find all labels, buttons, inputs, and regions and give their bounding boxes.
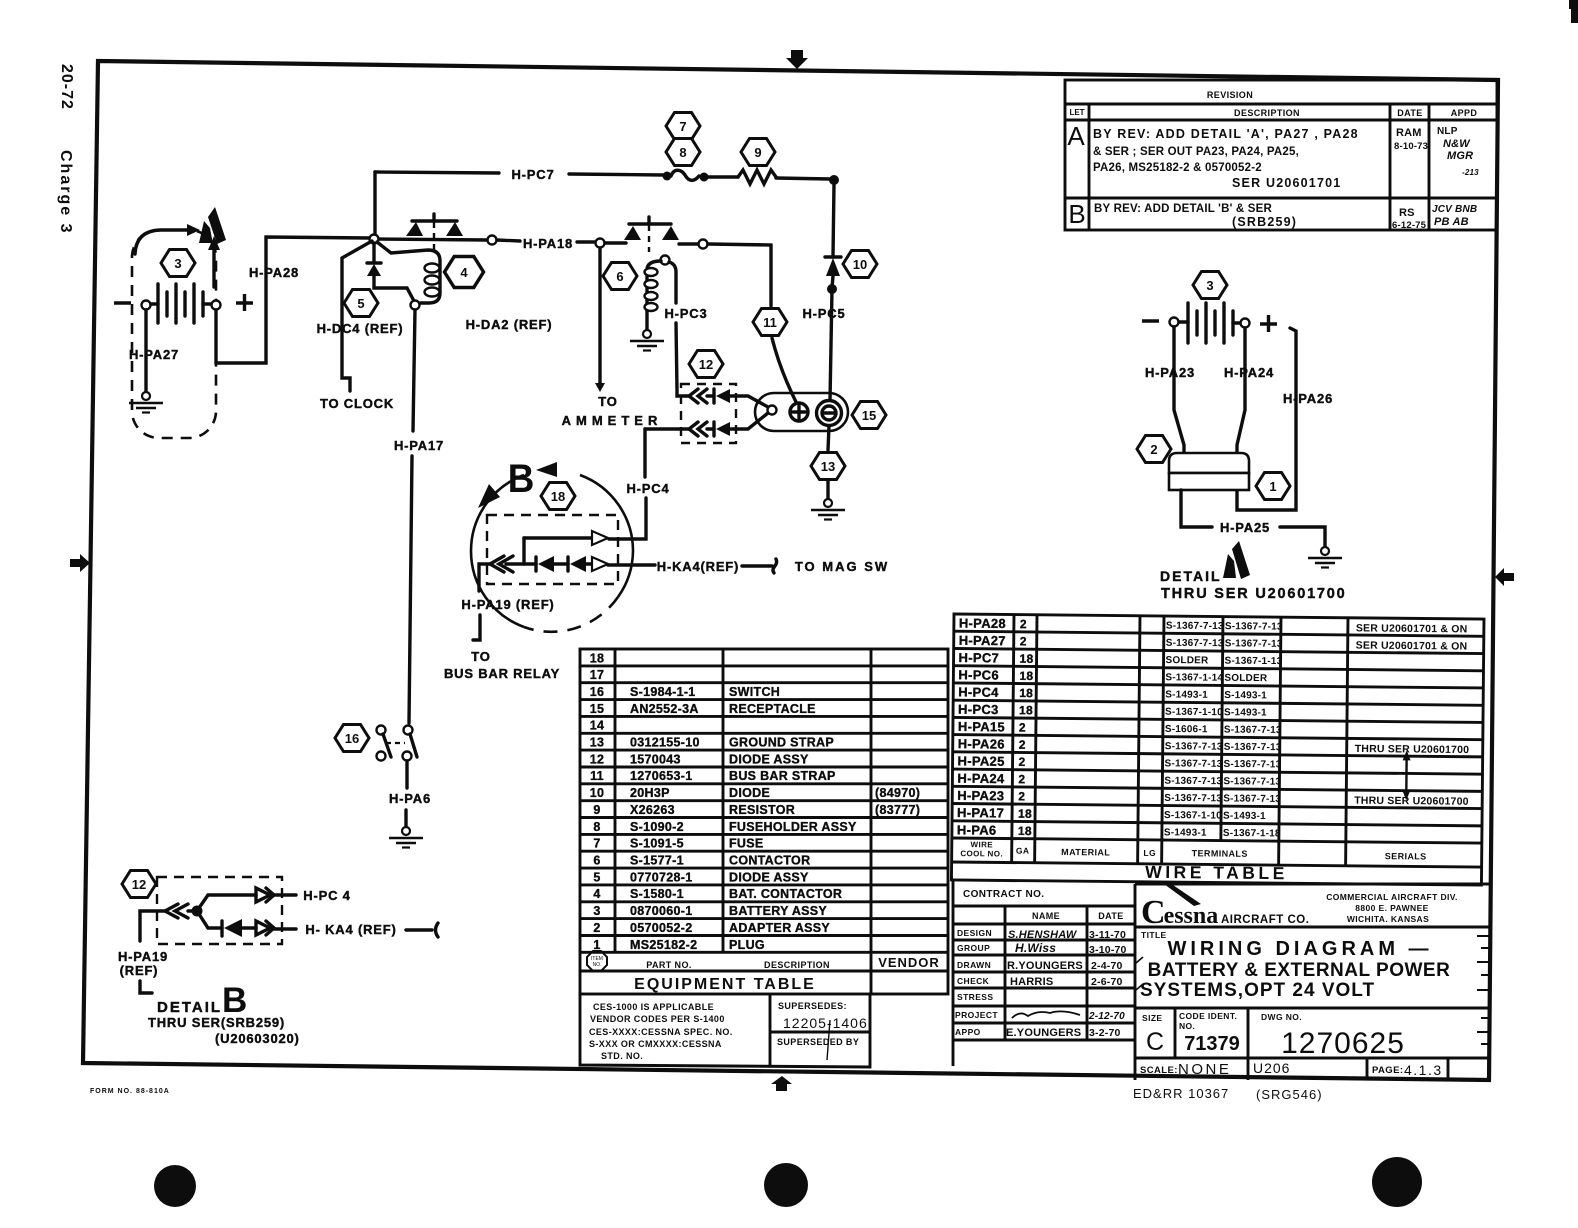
svg-text:SIZE: SIZE xyxy=(1142,1013,1163,1023)
svg-text:16: 16 xyxy=(345,731,359,746)
svg-text:S-1606-1: S-1606-1 xyxy=(1165,724,1208,735)
equipment table header row xyxy=(587,951,607,971)
svg-text:N&W: N&W xyxy=(1443,138,1471,150)
svg-text:S-1367-7-13: S-1367-7-13 xyxy=(1224,724,1282,736)
svg-text:-213: -213 xyxy=(1462,168,1479,177)
wire to mag switch xyxy=(742,564,772,567)
svg-text:VENDOR: VENDOR xyxy=(878,955,940,970)
diode detail 12 xyxy=(220,921,223,936)
svg-text:MATERIAL: MATERIAL xyxy=(1061,847,1110,857)
svg-text:S-1367-1-14: S-1367-1-14 xyxy=(1165,672,1223,684)
svg-text:9: 9 xyxy=(593,803,600,817)
detail B lower row wire xyxy=(506,562,536,565)
svg-text:SCALE:: SCALE: xyxy=(1140,1065,1178,1076)
svg-text:EQUIPMENT TABLE: EQUIPMENT TABLE xyxy=(634,976,816,993)
register arrow bottom xyxy=(771,1076,792,1091)
bat contactor 4 coil body xyxy=(377,242,440,303)
svg-text:6-12-75: 6-12-75 xyxy=(1392,220,1427,231)
svg-text:B: B xyxy=(1068,199,1085,229)
svg-text:LET: LET xyxy=(1069,108,1084,117)
svg-text:2: 2 xyxy=(1018,789,1025,803)
svg-text:HARRIS: HARRIS xyxy=(1010,976,1053,988)
node H-DA2 tap right xyxy=(596,239,605,248)
svg-text:2: 2 xyxy=(1018,772,1025,786)
diode item 5 xyxy=(367,261,381,264)
wire chevron to junction xyxy=(188,909,193,912)
svg-text:15: 15 xyxy=(590,702,605,716)
node B junction dot xyxy=(829,175,839,185)
wire H-PC4 ref out xyxy=(274,893,296,896)
svg-text:ED&RR 10367: ED&RR 10367 xyxy=(1133,1086,1229,1101)
switch 16 lower contact nodes xyxy=(377,752,386,761)
wire table tilt group xyxy=(951,614,1484,885)
svg-text:SYSTEMS,OPT 24 VOLT: SYSTEMS,OPT 24 VOLT xyxy=(1140,980,1375,1001)
diode assy 12 lower row wire from H-PC4 xyxy=(645,427,690,430)
svg-text:RECEPTACLE: RECEPTACLE xyxy=(729,702,816,716)
svg-text:H-PC 4: H-PC 4 xyxy=(303,888,350,903)
svg-text:0570052-2: 0570052-2 xyxy=(630,921,692,935)
svg-text:3-10-70: 3-10-70 xyxy=(1089,944,1127,956)
svg-text:DETAIL: DETAIL xyxy=(1160,568,1222,584)
svg-text:4.1.3: 4.1.3 xyxy=(1404,1062,1443,1078)
svg-text:20H3P: 20H3P xyxy=(630,786,670,800)
hexagon item 8 xyxy=(666,139,700,166)
open diode lower xyxy=(592,557,608,571)
svg-text:11: 11 xyxy=(763,315,777,330)
hexagon item 1 xyxy=(1256,473,1290,500)
svg-text:8-10-73: 8-10-73 xyxy=(1394,141,1428,152)
svg-text:71379: 71379 xyxy=(1184,1033,1240,1055)
wire H-PC4 vertical upper xyxy=(643,429,646,477)
serials range arrow xyxy=(1405,757,1408,793)
svg-text:H-PA23: H-PA23 xyxy=(1145,365,1195,380)
bat contactor 4 fixed contact left xyxy=(406,222,423,236)
svg-text:DIODE: DIODE xyxy=(729,786,770,800)
svg-text:WIRING DIAGRAM —: WIRING DIAGRAM — xyxy=(1167,938,1432,960)
svg-text:PA26, MS25182-2 & 0570052-2: PA26, MS25182-2 & 0570052-2 xyxy=(1093,162,1262,174)
svg-text:8: 8 xyxy=(679,145,686,160)
svg-text:2: 2 xyxy=(1020,617,1027,631)
ground battery xyxy=(129,392,163,413)
svg-text:H-PA6: H-PA6 xyxy=(389,791,431,806)
wire H-KA4 out of box xyxy=(608,563,655,566)
sheet border frame xyxy=(83,61,1498,1080)
svg-text:BAT. CONTACTOR: BAT. CONTACTOR xyxy=(729,887,842,901)
svg-text:S-1367-1-13: S-1367-1-13 xyxy=(1225,656,1283,668)
svg-text:FORM NO. 88-810A: FORM NO. 88-810A xyxy=(90,1088,170,1095)
svg-text:S-1367-7-13: S-1367-7-13 xyxy=(1165,758,1223,770)
detail 12 left chevrons xyxy=(165,904,188,918)
wire to clock branch xyxy=(342,241,372,391)
svg-text:12: 12 xyxy=(590,752,605,766)
svg-text:1570043: 1570043 xyxy=(630,752,681,766)
svg-text:STRESS: STRESS xyxy=(957,992,993,1002)
wire node A up to H-PC7 xyxy=(373,172,376,234)
wire H-PA17 upper xyxy=(413,310,415,431)
detail A glyph xyxy=(1223,554,1236,578)
svg-text:BATTERY ASSY: BATTERY ASSY xyxy=(729,904,827,918)
diode item 5 branch wire xyxy=(372,243,375,262)
hexagon item 3 xyxy=(161,250,195,277)
svg-text:THRU SER U20601700: THRU SER U20601700 xyxy=(1354,795,1469,808)
svg-text:0770728-1: 0770728-1 xyxy=(630,870,692,884)
svg-text:1270653-1: 1270653-1 xyxy=(630,769,692,783)
svg-text:DWG NO.: DWG NO. xyxy=(1261,1012,1302,1022)
svg-text:Charge 3: Charge 3 xyxy=(57,150,74,234)
svg-text:TO MAG SW: TO MAG SW xyxy=(795,559,889,574)
svg-text:CODE IDENT.: CODE IDENT. xyxy=(1179,1011,1237,1021)
svg-text:S-1984-1-1: S-1984-1-1 xyxy=(630,685,696,699)
contactor 6 coil top node xyxy=(661,256,670,265)
ground contactor 6 xyxy=(630,330,664,351)
svg-text:NAME: NAME xyxy=(1032,911,1060,921)
svg-text:11: 11 xyxy=(590,769,604,783)
svg-text:CHECK: CHECK xyxy=(957,976,990,986)
svg-text:18: 18 xyxy=(1018,807,1032,821)
wire lower row to receptacle pin xyxy=(730,413,768,429)
wire H-PA19 detail stub xyxy=(140,981,152,993)
battery detail A plates xyxy=(1179,303,1241,343)
svg-text:BATTERY & EXTERNAL POWER: BATTERY & EXTERNAL POWER xyxy=(1148,960,1451,981)
switch 16 arms xyxy=(383,734,391,757)
scan tick marks right edge of title block xyxy=(1136,936,1489,1044)
svg-text:DATE: DATE xyxy=(1397,108,1422,118)
hexagon item 5 xyxy=(344,290,378,317)
svg-text:H-PA28: H-PA28 xyxy=(249,265,299,280)
svg-text:3: 3 xyxy=(1206,278,1213,293)
detail 12 junction dot xyxy=(192,906,203,917)
svg-text:2-4-70: 2-4-70 xyxy=(1091,960,1123,972)
detail A flag arrow up xyxy=(212,249,215,287)
svg-text:H-PC6: H-PC6 xyxy=(958,667,999,682)
diode lower xyxy=(712,422,715,436)
plus sign detail A xyxy=(1260,315,1277,332)
svg-text:BY REV: ADD DETAIL 'A', PA27 ,: BY REV: ADD DETAIL 'A', PA27 , PA28 xyxy=(1093,127,1359,141)
register arrow right xyxy=(1495,568,1514,586)
switch 16 link dashed xyxy=(386,742,405,744)
svg-text:AN2552-3A: AN2552-3A xyxy=(630,702,699,716)
svg-text:3: 3 xyxy=(593,904,600,918)
svg-text:S-1367-7-13: S-1367-7-13 xyxy=(1223,793,1281,805)
detail 12 upper branch wire xyxy=(199,895,256,908)
wire H-PC5 node C to receptacle minus xyxy=(830,289,832,401)
svg-text:SERIALS: SERIALS xyxy=(1385,851,1427,861)
hexagon item 3 detail A xyxy=(1193,272,1227,299)
svg-text:TO CLOCK: TO CLOCK xyxy=(320,396,394,411)
svg-text:S-1367-7-13: S-1367-7-13 xyxy=(1223,776,1281,788)
svg-text:TERMINALS: TERMINALS xyxy=(1192,848,1248,859)
svg-text:E.YOUNGERS: E.YOUNGERS xyxy=(1006,1027,1081,1039)
svg-text:S-1493-1: S-1493-1 xyxy=(1223,811,1266,822)
svg-text:H- KA4 (REF): H- KA4 (REF) xyxy=(305,922,396,937)
ground detail A xyxy=(1308,547,1342,568)
svg-text:RESISTOR: RESISTOR xyxy=(729,803,795,817)
wire H-PA18 node A to contactor 4 contacts xyxy=(379,239,487,240)
wire resistor to node B xyxy=(776,178,830,179)
wire H-PA19 ref left leg xyxy=(140,911,166,941)
punch dot center xyxy=(764,1163,808,1207)
wire node to contactor 6 contacts xyxy=(605,241,626,244)
svg-text:2: 2 xyxy=(1019,721,1026,735)
svg-text:17: 17 xyxy=(590,668,605,682)
wire H-PA26 xyxy=(1237,328,1296,510)
register arrow top xyxy=(786,50,808,69)
corner crop mark top-right xyxy=(1569,0,1578,23)
wire contacts to node D xyxy=(679,242,698,245)
switch 16 upper contact nodes xyxy=(377,726,386,735)
svg-text:5: 5 xyxy=(357,296,364,311)
svg-text:H-PA27: H-PA27 xyxy=(959,633,1006,648)
svg-text:5: 5 xyxy=(593,870,600,884)
svg-text:10: 10 xyxy=(853,257,867,272)
detail B ref arrowhead top xyxy=(536,462,557,477)
wire diode 10 to node C xyxy=(832,276,833,288)
ground switch xyxy=(389,827,423,848)
svg-text:GROUP: GROUP xyxy=(957,943,990,953)
detail A flag arrow curved xyxy=(135,230,188,254)
svg-text:S-1367-7-13: S-1367-7-13 xyxy=(1225,638,1283,650)
svg-text:15: 15 xyxy=(862,408,876,423)
svg-text:2-6-70: 2-6-70 xyxy=(1091,976,1123,988)
svg-text:S-1090-2: S-1090-2 xyxy=(630,820,684,834)
svg-text:6: 6 xyxy=(616,269,623,284)
svg-text:S-1367-7-13: S-1367-7-13 xyxy=(1224,742,1282,754)
detail 12 dashed box xyxy=(157,877,282,944)
contactor 6 fixed contact right xyxy=(662,226,679,240)
battery terminal node left xyxy=(142,301,151,310)
svg-text:H-PA6: H-PA6 xyxy=(957,822,997,837)
svg-text:H-PA18: H-PA18 xyxy=(523,236,573,251)
svg-text:THRU SER(SRB259): THRU SER(SRB259) xyxy=(148,1015,285,1030)
hexagon item 12 xyxy=(689,351,723,378)
svg-text:16: 16 xyxy=(590,685,605,699)
svg-text:NLP: NLP xyxy=(1437,126,1458,137)
wire H-DA2 down to ammeter xyxy=(598,248,601,383)
svg-text:(SRG546): (SRG546) xyxy=(1256,1087,1323,1102)
svg-text:PAGE:: PAGE: xyxy=(1372,1065,1403,1076)
svg-text:SUPERSEDED BY: SUPERSEDED BY xyxy=(777,1037,859,1047)
hexagon item 9 xyxy=(741,139,775,166)
svg-text:H.Wiss: H.Wiss xyxy=(1015,941,1056,955)
bat contactor 4 coil loops xyxy=(425,264,440,297)
connector chevrons upper xyxy=(689,389,707,403)
receptacle plus terminal xyxy=(790,403,808,421)
bus bar strap 11 wire to receptacle plus xyxy=(772,338,797,404)
svg-text:THRU SER U20601700: THRU SER U20601700 xyxy=(1161,586,1347,602)
svg-text:(REF): (REF) xyxy=(120,963,159,978)
svg-text:TO: TO xyxy=(471,649,490,664)
svg-text:8800 E. PAWNEE: 8800 E. PAWNEE xyxy=(1355,903,1428,913)
hexagon item 11 xyxy=(753,309,787,336)
svg-text:RS: RS xyxy=(1399,207,1415,219)
svg-text:PB AB: PB AB xyxy=(1434,216,1469,228)
svg-text:(SRB259): (SRB259) xyxy=(1232,215,1297,229)
contactor 6 actuator dashed xyxy=(648,225,650,252)
svg-text:H-PA24: H-PA24 xyxy=(1224,365,1274,380)
svg-text:H-PA19: H-PA19 xyxy=(118,949,168,964)
wire H-PC4 vertical lower into detail B xyxy=(609,498,646,539)
svg-text:(84970): (84970) xyxy=(875,786,920,800)
svg-text:2-12-70: 2-12-70 xyxy=(1088,1011,1125,1022)
svg-text:R.YOUNGERS: R.YOUNGERS xyxy=(1007,960,1083,972)
diode assy 12 upper row wire xyxy=(686,394,690,397)
wire H-PC7 left segment xyxy=(375,172,499,173)
svg-text:12: 12 xyxy=(132,877,146,892)
svg-text:12205-1406: 12205-1406 xyxy=(783,1015,868,1031)
svg-text:18: 18 xyxy=(551,489,565,504)
svg-text:2: 2 xyxy=(593,921,600,935)
wire H-PA23 xyxy=(1174,327,1184,456)
svg-text:H-DA2 (REF): H-DA2 (REF) xyxy=(466,317,553,332)
svg-text:FUSE: FUSE xyxy=(729,837,764,851)
svg-text:DESIGN: DESIGN xyxy=(957,928,992,938)
hexagon item 6 xyxy=(603,263,637,290)
detail B upper row wire xyxy=(524,536,592,539)
svg-text:H-PA19 (REF): H-PA19 (REF) xyxy=(461,597,554,612)
svg-text:SOLDER: SOLDER xyxy=(1166,655,1210,666)
svg-text:H-PA26: H-PA26 xyxy=(958,736,1005,751)
svg-text:H-PC4: H-PC4 xyxy=(626,481,669,496)
svg-text:RAM: RAM xyxy=(1396,127,1422,139)
svg-text:BUS BAR STRAP: BUS BAR STRAP xyxy=(729,769,836,783)
svg-text:H-PA23: H-PA23 xyxy=(957,788,1004,803)
svg-text:NO.: NO. xyxy=(593,962,602,968)
svg-text:H-PC7: H-PC7 xyxy=(959,650,1000,665)
svg-text:H-PA24: H-PA24 xyxy=(957,771,1005,786)
detail 12 lower branch wire xyxy=(199,914,222,928)
svg-text:SER U20601701 & ON: SER U20601701 & ON xyxy=(1356,640,1468,653)
svg-text:13: 13 xyxy=(590,736,605,750)
svg-text:H-KA4(REF): H-KA4(REF) xyxy=(657,559,739,574)
svg-text:0870060-1: 0870060-1 xyxy=(630,904,692,918)
svg-text:7: 7 xyxy=(679,119,686,134)
svg-text:STD. NO.: STD. NO. xyxy=(601,1051,643,1061)
svg-text:1: 1 xyxy=(1269,479,1276,494)
fuse item 7/8 xyxy=(663,172,672,181)
svg-text:& SER ; SER OUT PA23, PA24, PA: & SER ; SER OUT PA23, PA24, PA25, xyxy=(1093,146,1299,158)
svg-text:PROJECT: PROJECT xyxy=(955,1010,998,1020)
hexagon item 10 xyxy=(843,251,877,278)
svg-text:3-11-70: 3-11-70 xyxy=(1089,929,1126,941)
bat contactor 4 coil terminal node xyxy=(411,301,420,310)
svg-text:APPD: APPD xyxy=(1451,108,1478,118)
svg-text:MGR: MGR xyxy=(1447,150,1473,162)
wire H-PA6 lower xyxy=(404,810,407,827)
svg-text:TO: TO xyxy=(598,394,617,409)
svg-text:H-PC7: H-PC7 xyxy=(511,167,554,182)
svg-text:S-1091-5: S-1091-5 xyxy=(630,837,684,851)
svg-text:DIODE ASSY: DIODE ASSY xyxy=(729,752,809,766)
battery detail A terminals xyxy=(1170,318,1179,327)
hexagon item 4 xyxy=(444,256,483,287)
adapter assy item 2 body xyxy=(1169,453,1249,473)
svg-text:S-1493-1: S-1493-1 xyxy=(1224,707,1267,718)
svg-text:S-XXX OR CMXXXX:CESSNA: S-XXX OR CMXXXX:CESSNA xyxy=(589,1039,722,1049)
svg-text:NONE: NONE xyxy=(1178,1061,1231,1078)
svg-text:2: 2 xyxy=(1020,634,1027,648)
svg-text:NO.: NO. xyxy=(1179,1021,1195,1031)
svg-text:C: C xyxy=(1146,1028,1164,1056)
svg-text:(U20603020): (U20603020) xyxy=(215,1031,300,1046)
svg-text:3-2-70: 3-2-70 xyxy=(1089,1027,1121,1039)
svg-text:BY REV: ADD DETAIL 'B' & SER: BY REV: ADD DETAIL 'B' & SER xyxy=(1094,203,1273,215)
svg-text:S-1367-7-13: S-1367-7-13 xyxy=(1166,621,1224,633)
wire tail and bracket xyxy=(406,928,432,931)
svg-text:COOL NO.: COOL NO. xyxy=(960,849,1003,858)
punch dot right xyxy=(1372,1157,1422,1207)
svg-text:20-72: 20-72 xyxy=(58,64,75,110)
detail 12 upper chevrons open right xyxy=(256,888,274,902)
svg-text:LG: LG xyxy=(1143,848,1156,858)
punch dot left xyxy=(154,1165,196,1207)
wire receptacle minus to hexagon 13 xyxy=(828,426,829,450)
svg-text:DESCRIPTION: DESCRIPTION xyxy=(764,960,830,970)
wire H-PA24 xyxy=(1237,328,1245,456)
svg-text:TITLE: TITLE xyxy=(1141,930,1167,940)
svg-text:H-PC3: H-PC3 xyxy=(664,306,707,321)
svg-text:14: 14 xyxy=(590,719,605,733)
svg-text:FUSEHOLDER ASSY: FUSEHOLDER ASSY xyxy=(729,820,857,834)
svg-text:THRU SER U20601700: THRU SER U20601700 xyxy=(1355,743,1470,756)
hexagon item 12 detail xyxy=(122,871,156,898)
wire node D right and down to bus bar strap xyxy=(708,244,771,306)
svg-text:S-1493-1: S-1493-1 xyxy=(1164,827,1207,838)
svg-text:S-1367-7-13: S-1367-7-13 xyxy=(1166,638,1224,650)
svg-text:18: 18 xyxy=(1019,703,1033,717)
node A junction xyxy=(370,235,379,244)
svg-text:AIRCRAFT CO.: AIRCRAFT CO. xyxy=(1221,914,1309,926)
svg-text:GA: GA xyxy=(1016,846,1030,856)
diode D1 lower xyxy=(534,557,537,571)
detail B dashed box xyxy=(487,515,618,584)
svg-text:S.HENSHAW: S.HENSHAW xyxy=(1008,929,1078,941)
contactor 6 coil xyxy=(647,261,661,311)
receptacle item 15 body xyxy=(755,393,848,431)
svg-text:WICHITA. KANSAS: WICHITA. KANSAS xyxy=(1347,914,1429,924)
svg-text:H-PA26: H-PA26 xyxy=(1283,391,1333,406)
svg-text:H-PA27: H-PA27 xyxy=(129,347,179,362)
wire H-PA19 lower stub xyxy=(473,615,480,640)
wire H-PA28 battery plus to node A xyxy=(216,237,370,363)
svg-text:18: 18 xyxy=(590,651,605,665)
resistor item 9 xyxy=(738,170,776,184)
svg-text:MS25182-2: MS25182-2 xyxy=(630,938,697,952)
node C junction dot xyxy=(827,284,837,294)
svg-text:U206: U206 xyxy=(1253,1060,1290,1076)
wire coil to ground xyxy=(645,311,648,330)
ground strap 13 ground xyxy=(811,499,845,520)
svg-text:3: 3 xyxy=(174,256,181,271)
svg-text:18: 18 xyxy=(1019,686,1033,700)
svg-text:DRAWN: DRAWN xyxy=(957,960,991,970)
svg-text:DESCRIPTION: DESCRIPTION xyxy=(1234,108,1300,118)
open diode upper xyxy=(592,531,608,545)
svg-text:0312155-10: 0312155-10 xyxy=(630,736,700,750)
plus sign xyxy=(236,294,253,311)
hexagon item 18 xyxy=(541,483,575,510)
svg-text:S-1367-7-13: S-1367-7-13 xyxy=(1225,621,1283,633)
svg-text:DIODE ASSY: DIODE ASSY xyxy=(729,870,809,884)
diode item 10 xyxy=(825,255,841,258)
svg-text:S-1493-1: S-1493-1 xyxy=(1165,689,1208,700)
svg-text:2: 2 xyxy=(1019,738,1026,752)
wire H-PA17 lower xyxy=(409,456,412,723)
wire battery minus to ground xyxy=(144,310,147,393)
svg-text:H-PC4: H-PC4 xyxy=(958,684,999,699)
svg-text:REVISION: REVISION xyxy=(1207,90,1253,100)
svg-text:H-PA17: H-PA17 xyxy=(957,805,1004,820)
svg-text:AMMETER: AMMETER xyxy=(562,413,663,428)
